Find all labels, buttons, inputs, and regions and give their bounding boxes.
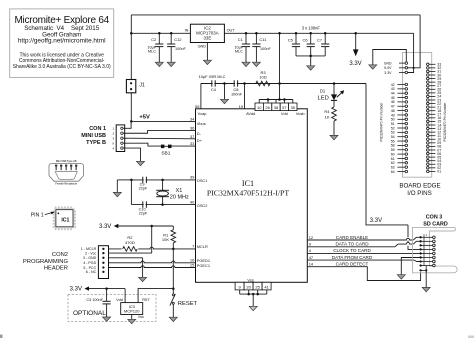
node AVdd junction [243,82,246,85]
ground below OSC [116,180,118,193]
svg-text:56: 56 [195,104,200,109]
wire SB1 to pin33 [172,145,196,147]
svg-text:OUT: OUT [227,29,236,33]
wire Vcc drop [151,226,153,253]
svg-text:ShareAlike 3.0 Australia (CC B: ShareAlike 3.0 Australia (CC BY-NC-SA 3.… [13,64,111,70]
resistor R1 [172,226,174,230]
svg-text:D-: D- [197,131,202,136]
svg-text:37: 37 [190,134,195,139]
svg-text:C12: C12 [174,37,182,42]
ground below C3 [103,317,111,321]
wire OSC1 row [131,179,195,181]
scan artifact left edge [0,335,3,338]
wire SD detect ground [425,270,427,287]
svg-text:1K: 1K [325,115,330,120]
wire OUT rail 3.3V [224,32,413,34]
svg-text:SD CARD: SD CARD [423,221,448,227]
wire PGD row [109,261,196,263]
svg-text:26: 26 [265,105,270,110]
node +5V Vbus junction [130,120,133,123]
svg-text:GND: GND [384,62,392,66]
ground below R4 [330,135,338,139]
wire Vss bus [239,290,241,294]
wire Vdd bus [259,99,293,101]
board edge left stubs [397,84,405,86]
ground below C1 [242,62,250,66]
svg-text:SB1: SB1 [161,150,170,156]
svg-text:CON 1: CON 1 [89,126,106,132]
wire USB VBUS [124,121,132,128]
svg-text:IC1: IC1 [242,179,254,188]
wire 3.3V SD drop [408,225,420,250]
svg-text:PIC32MX470 Pin Number: PIC32MX470 Pin Number [443,102,447,142]
board edge right stubs [429,63,435,65]
board edge power stubs [399,62,405,64]
svg-text:64: 64 [391,170,395,174]
node Vss stem [252,293,255,296]
svg-text:35: 35 [291,105,296,110]
svg-text:10µF X5R MLC: 10µF X5R MLC [199,74,226,79]
svg-text:3 x 100nF: 3 x 100nF [302,26,321,31]
svg-text:PIC32MX470F512H-I/PT: PIC32MX470F512H-I/PT [207,188,290,197]
pin box 35 [289,103,297,111]
svg-text:3 - GND: 3 - GND [83,256,97,260]
wire SD ground row6 [401,258,419,275]
label C1 value [234,45,243,53]
node C7 top [324,32,327,35]
node R3 right junction [278,82,281,85]
svg-text:MLC: MLC [148,50,156,54]
node C5 top [295,32,298,35]
svg-text:36: 36 [190,125,195,130]
svg-text:Female Receptacle: Female Receptacle [55,183,77,186]
svg-text:20: 20 [246,284,251,289]
ground below C11 [252,62,260,66]
node C6 top [309,32,312,35]
svg-text:47: 47 [309,255,314,260]
svg-text:CON2: CON2 [52,252,68,258]
wire GND pin [373,50,407,65]
wire CARD ENABLE [307,238,413,240]
svg-text:BOARD EDGE: BOARD EDGE [399,183,440,190]
capacitor C7 [324,33,326,44]
ground below C2 [155,62,163,66]
node C11 top [255,32,258,35]
capacitor C2 [158,33,160,44]
chip package icon [54,208,75,229]
svg-text:C1: C1 [238,37,244,42]
svg-text:15: 15 [190,262,195,267]
node LED tap [333,82,336,85]
wire USB D+ [124,137,196,140]
resistor R4 [332,107,337,121]
svg-text:4 - PGD: 4 - PGD [83,261,96,265]
wire IN rail [131,32,190,34]
node Vss 20 [247,293,250,296]
wire 3.3V pin [408,33,414,72]
ground below IC2 [206,43,208,61]
board edge right circles [427,63,430,66]
ground board edge [369,65,377,69]
node Vdd bus main [278,98,281,101]
ground below C12 [167,62,175,66]
scan artifact corner [468,336,474,338]
capacitor C9 [142,177,144,183]
svg-text:IC1: IC1 [61,218,69,224]
crystal X1 [162,180,164,190]
svg-text:33: 33 [190,141,195,146]
svg-text:100nF: 100nF [260,47,271,51]
wire Vbus to pin34 [131,120,195,122]
svg-text:CARD ENABLE: CARD ENABLE [336,235,368,240]
svg-text:5.0V: 5.0V [384,66,392,70]
svg-text:D1: D1 [320,89,326,94]
svg-text:38: 38 [274,105,279,110]
svg-text:RESET: RESET [178,301,198,307]
SD card gray outline [413,227,458,272]
svg-text:J1: J1 [139,82,145,88]
ground below CON2 GND [142,258,144,278]
svg-text:X1: X1 [176,188,183,194]
svg-text:12: 12 [309,235,314,240]
optional dashed box [68,295,156,322]
svg-text:http://geoffg.net/micromite.ht: http://geoffg.net/micromite.html [18,38,106,45]
LED arrow [337,92,343,98]
svg-text:IN: IN [185,29,189,33]
wire PGC row [109,266,196,268]
regulator IC2 [190,24,224,42]
ground below Vss [252,294,254,306]
svg-text:OPTIONAL: OPTIONAL [73,310,106,317]
svg-text:39: 39 [190,175,195,180]
pin 26 stub [267,100,269,104]
node C2 top [158,32,161,35]
svg-text:C3 100nF: C3 100nF [86,298,103,302]
CON1 pin circles [121,127,123,129]
svg-text:20 MHz: 20 MHz [170,195,189,201]
solder bridge SB1 [161,145,165,149]
node 3.3V crossing [413,67,415,69]
capacitor C8 [233,80,235,86]
svg-text:CON 3: CON 3 [426,215,442,221]
svg-text:CLOCK TO CARD: CLOCK TO CARD [333,248,371,253]
wire 5.0V pin [408,15,421,68]
mini USB receptacle icon [49,164,84,182]
node C3 tap [105,287,108,290]
pin box 26 [263,103,271,111]
pin box 25 [253,282,262,290]
svg-text:+5V: +5V [139,114,150,120]
node MCLR junction [172,248,175,251]
svg-text:Vusb: Vusb [296,111,305,116]
capacitor C4 [211,80,213,86]
power flag 3.3V down arrow [355,33,357,50]
svg-text:14: 14 [309,262,314,267]
SD card detect pins [419,269,421,271]
svg-text:25: 25 [255,284,260,289]
wire Vdd drop [124,289,126,303]
svg-text:3.3V: 3.3V [384,71,392,75]
connector CON2 body [98,246,108,279]
pin 35 stub [292,100,294,104]
svg-text:DATA TO CARD: DATA TO CARD [335,242,369,247]
svg-text:C5: C5 [288,38,294,43]
wire OSC left vertical [130,180,132,205]
capacitor C1 [245,33,247,44]
pin box 41 [262,282,271,290]
resistor R3 [256,81,270,86]
svg-text:AVdd: AVdd [246,111,255,116]
svg-text:5 - PCC: 5 - PCC [83,266,96,270]
svg-text:R4: R4 [324,109,330,114]
svg-text:22pF: 22pF [139,187,148,191]
wire OSC gnd [117,179,131,181]
ground below C5-C7 [310,56,312,66]
svg-text:RST: RST [142,298,150,302]
board edge gray box [403,53,432,178]
svg-text:C7: C7 [317,38,323,43]
ground below C4 [224,84,226,100]
svg-text:Mini USB Type AB: Mini USB Type AB [56,160,77,163]
svg-text:C4: C4 [211,87,217,92]
svg-text:57: 57 [282,105,287,110]
node OSC2 crystal [161,203,164,206]
svg-text:PIN 1: PIN 1 [31,212,44,218]
svg-text:MLC: MLC [235,50,243,54]
pin 10 stub [258,100,260,104]
wire OSC2 row [131,204,195,206]
svg-text:MINI USB: MINI USB [81,133,106,139]
pin box 20 [244,282,253,290]
svg-text:3.3V: 3.3V [370,218,382,224]
board edge left circles [405,83,408,86]
wire RESET vertical [172,249,174,294]
svg-text:10Ω: 10Ω [259,75,266,80]
svg-text:Vcap: Vcap [198,111,207,116]
pin 38 stub [275,100,277,104]
svg-text:41: 41 [264,284,269,289]
svg-text:MCLR: MCLR [197,244,208,249]
svg-text:Vdd: Vdd [116,298,123,302]
svg-text:OSC2: OSC2 [197,203,208,208]
svg-text:DATA FROM CARD: DATA FROM CARD [332,255,373,260]
ground below RESET [172,304,174,317]
svg-text:10: 10 [257,105,262,110]
capacitor C11 [255,33,257,44]
pin1 pointer arrow [45,212,53,214]
pin 19 stub [244,84,246,109]
svg-text:10K: 10K [162,237,169,242]
svg-text:LED: LED [318,95,329,101]
wire 3.3V to SD [366,84,408,225]
svg-text:Vss: Vss [138,315,144,319]
pin box 9 [235,282,244,290]
capacitor C10 [142,201,144,207]
svg-text:Vdd: Vdd [281,111,288,116]
node 3.3V flag tap [354,32,357,35]
svg-text:PIC32MX470 Pin Number: PIC32MX470 Pin Number [380,102,384,142]
wire DATA FROM CARD [307,259,414,261]
svg-text:3.3V: 3.3V [70,287,82,293]
wire +5V vertical from rail to USB [130,15,132,122]
svg-text:470Ω: 470Ω [125,240,135,245]
resistor R2 [122,246,139,252]
svg-text:X: X [112,141,114,145]
svg-text:34: 34 [190,116,195,121]
capacitor C5 [295,33,297,44]
svg-text:100nF: 100nF [231,92,243,97]
node 3.3V rail tap [278,32,281,35]
svg-text:CARD DETECT: CARD DETECT [336,262,369,267]
node RST junction [172,287,175,290]
node C12 top [170,32,173,35]
svg-text:GND: GND [198,45,207,49]
wire USB GND [124,148,141,161]
svg-text:C6: C6 [302,38,308,43]
LED D1 [333,84,335,95]
node C4-C8 junction [223,82,226,85]
svg-text:40: 40 [190,199,195,204]
wire +5V top rail [131,14,420,16]
title block frame [10,9,114,78]
svg-text:22pF: 22pF [139,212,148,216]
pin box 10 [255,103,263,111]
ground SD bottom [422,287,430,291]
wire USB D- [124,130,196,133]
supervisor IC3 MCP120 [121,303,143,315]
pin 56 stub [200,84,202,109]
board edge power circles [405,62,408,65]
wire CON2 GND [109,257,143,259]
svg-text:3.3V: 3.3V [349,61,361,67]
wire C5-C7 common [296,55,325,57]
svg-text:3.3V: 3.3V [99,224,111,230]
op-amp U1 main IC1 box [196,109,308,282]
ground below IC3 [131,315,133,320]
wire 3.3V drop to Vdd bus [279,33,281,99]
SD contact rows [421,236,433,238]
svg-text:6 - NC: 6 - NC [86,270,97,274]
svg-text:33E: 33E [203,36,211,41]
svg-text:I/O PINS: I/O PINS [407,190,431,197]
svg-text:TYPE B: TYPE B [86,140,106,146]
SD contact body line [423,234,425,266]
switch RESET [172,294,174,296]
wire CLOCK TO CARD [307,252,419,254]
wire DATA TO CARD [307,246,395,248]
node Vss 25 [256,293,259,296]
wire RST [138,289,173,303]
svg-text:HEADER: HEADER [44,265,68,271]
wire CON2 Vcc [109,252,152,254]
label C2 value [147,45,156,53]
svg-text:Vss: Vss [247,277,254,282]
node OSC1 crystal [161,179,164,182]
node Vcc tap [150,225,153,228]
svg-text:D+: D+ [197,138,203,143]
svg-text:2 - Vcc: 2 - Vcc [85,251,96,255]
wire CARD DETECT [307,267,420,281]
svg-text:PROGRAMMING: PROGRAMMING [23,259,69,265]
ground below USB [137,161,145,165]
CON2 pin circles [102,248,104,250]
svg-text:Vbus: Vbus [197,121,206,126]
wire Vcap-AVdd rail [201,83,366,85]
capacitor C3 [106,289,108,302]
capacitor C6 [310,33,312,44]
pin 57 stub [283,100,285,104]
svg-text:PGEC1: PGEC1 [197,263,210,268]
pin box 38 [272,103,280,111]
svg-text:01: 01 [437,170,441,174]
node +5V to IC2 IN junction [130,32,133,35]
svg-text:MCP120: MCP120 [124,309,140,314]
ground SD left [397,275,405,279]
svg-text:C2: C2 [151,37,157,42]
svg-text:19: 19 [239,104,244,109]
node C6 bottom [309,55,312,58]
svg-text:100nF: 100nF [175,47,186,51]
connector J1 [126,80,135,93]
svg-text:C11: C11 [259,37,267,42]
svg-text:OSC1: OSC1 [197,178,208,183]
wire MCLR row [109,247,196,249]
node OSC1 left [130,179,133,182]
connector CON1 body [116,125,125,152]
wire USB ID to SB1 [124,143,162,146]
pin box 57 [280,103,288,111]
capacitor C12 [170,33,172,44]
node C1 top [245,32,248,35]
